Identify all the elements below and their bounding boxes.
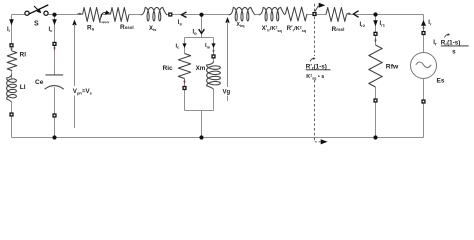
svg-text:Ir: Ir	[433, 39, 437, 46]
node junction	[52, 135, 56, 139]
dashed divider	[315, 3, 328, 145]
curved arrow Isupply	[100, 10, 111, 23]
wire	[375, 15, 377, 46]
wire	[347, 14, 424, 16]
node junction	[52, 13, 56, 17]
svg-text:Xls: Xls	[149, 26, 157, 32]
resistor Rrssl	[326, 8, 347, 34]
node junction	[373, 135, 377, 139]
wire	[213, 89, 215, 110]
node junction	[199, 13, 203, 17]
svg-text:Xm: Xm	[196, 65, 206, 72]
terminal node	[373, 32, 377, 36]
terminal node	[9, 112, 13, 116]
label S	[34, 21, 39, 28]
svg-text:s: s	[452, 49, 456, 56]
terminal node	[52, 42, 56, 46]
terminal node	[9, 43, 13, 47]
label Rr(1-s)/Ksq s	[306, 57, 331, 80]
voltage probe Vg	[223, 17, 231, 101]
switch S	[25, 5, 48, 15]
wire	[201, 111, 203, 138]
red marker	[212, 49, 214, 53]
svg-text:Ir: Ir	[428, 20, 432, 26]
current arrow Ir	[421, 20, 432, 26]
terminal node	[312, 12, 316, 16]
wire	[185, 37, 214, 39]
terminal node	[421, 31, 425, 35]
svg-text:Ir1: Ir1	[380, 21, 386, 27]
svg-text:Rs: Rs	[87, 25, 95, 32]
node junction	[199, 135, 203, 139]
svg-text:Vph=Vs: Vph=Vs	[73, 88, 93, 95]
wire	[307, 14, 326, 16]
wire	[11, 71, 13, 80]
wire	[423, 15, 425, 53]
svg-text:Isupply: Isupply	[100, 20, 110, 24]
red marker	[10, 47, 12, 51]
svg-text:Ir2: Ir2	[360, 22, 366, 28]
wire	[201, 15, 203, 38]
current arrow Is	[178, 12, 187, 26]
red marker	[53, 46, 55, 51]
current arrow Io	[193, 29, 205, 36]
terminal node	[182, 86, 186, 90]
current arrow Ic	[49, 19, 57, 33]
svg-text:S: S	[34, 21, 39, 28]
wire	[184, 79, 186, 111]
AC source Es	[411, 53, 445, 85]
wire	[166, 14, 230, 16]
current arrow Ir1	[373, 20, 386, 27]
wire	[54, 87, 56, 137]
current arrow Ic core	[176, 43, 187, 49]
wire	[185, 110, 214, 112]
svg-text:Es: Es	[437, 78, 445, 85]
svg-text:R′r/K2sq: R′r/K2sq	[287, 26, 307, 33]
wire	[184, 38, 186, 54]
node junction	[373, 12, 377, 16]
resistor Rr/Ksq	[285, 7, 307, 33]
svg-text:X′lr/K2sq: X′lr/K2sq	[262, 26, 283, 33]
wire	[12, 137, 424, 139]
svg-text:Ic: Ic	[49, 27, 54, 33]
svg-text:Ll: Ll	[20, 84, 26, 91]
wire	[11, 102, 13, 137]
svg-text:Rfw: Rfw	[386, 64, 399, 71]
wire	[11, 15, 13, 52]
wire	[255, 14, 259, 16]
terminal node	[211, 54, 215, 58]
svg-text:Io: Io	[193, 30, 198, 36]
wire	[375, 87, 377, 138]
terminal node	[373, 98, 377, 102]
current arrow Im	[205, 43, 216, 49]
svg-text:Xlrq: Xlrq	[237, 22, 245, 28]
red marker	[374, 38, 376, 43]
svg-text:K2sq • s: K2sq • s	[306, 74, 324, 81]
resistor Rl	[7, 51, 26, 71]
resistor Rsssl	[110, 8, 133, 31]
wire	[129, 14, 141, 16]
resistor Rs	[83, 8, 102, 32]
inductor Xlr/Ksq	[259, 7, 285, 33]
label Ir Rr(1-s)/s	[433, 33, 468, 55]
svg-text:Rsssl: Rsssl	[120, 24, 134, 31]
inductor Xlrq	[229, 7, 255, 28]
svg-text:Im: Im	[205, 43, 211, 49]
wire	[423, 79, 425, 138]
current arrow Ir2	[353, 11, 365, 28]
svg-text:Il: Il	[7, 27, 10, 33]
svg-text:Is: Is	[178, 20, 183, 26]
svg-text:Rl: Rl	[20, 52, 27, 59]
red marker	[346, 12, 351, 14]
current arrow Il	[7, 19, 14, 33]
inductor Xm	[196, 62, 221, 90]
capacitor Ce	[35, 75, 64, 89]
wire	[48, 14, 83, 16]
svg-text:Ric: Ric	[163, 65, 174, 72]
svg-text:Rrssl: Rrssl	[332, 26, 345, 33]
inductor Ll	[7, 75, 26, 103]
red marker	[183, 79, 185, 84]
resistor Ric	[163, 54, 191, 79]
wire	[101, 14, 110, 16]
terminal node	[168, 12, 172, 16]
inductor Xls	[141, 7, 167, 32]
terminal node	[52, 113, 56, 117]
terminal node	[421, 99, 425, 103]
red marker	[422, 26, 424, 30]
wire	[213, 38, 215, 62]
resistor Rfw	[369, 45, 399, 87]
voltage probe Vph=Vs	[72, 20, 92, 129]
svg-text:Vg: Vg	[223, 90, 231, 96]
wire	[284, 14, 287, 16]
red current marker	[77, 13, 82, 15]
svg-text:Ic: Ic	[176, 43, 181, 49]
svg-text:Ce: Ce	[35, 79, 44, 86]
wire	[54, 15, 56, 75]
wire	[12, 14, 26, 16]
